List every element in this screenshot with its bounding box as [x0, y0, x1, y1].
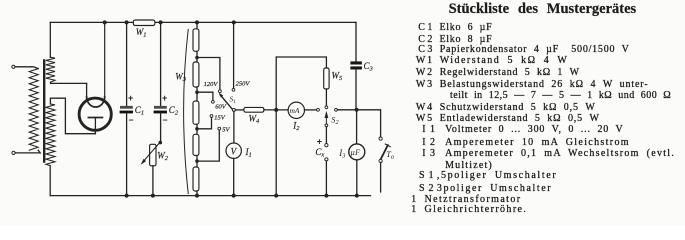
wire: W3 chain bottom to rail: [196, 191, 198, 196]
milliammeter I2: [288, 102, 304, 118]
transformer HV secondary winding: [46, 57, 55, 82]
rectifier tube V1 envelope: [79, 98, 111, 130]
switch Ta lever: [381, 145, 388, 159]
wire: node down to uF meter: [356, 110, 358, 144]
variable resistor W2 wiper arrow: [143, 142, 160, 162]
parts list line Netztransformator: [411, 195, 416, 205]
wire: W5 to S2 top contact: [325, 89, 327, 106]
switch S2 wiper base: [325, 124, 328, 127]
svg-text:Ta: Ta: [386, 150, 394, 160]
resistor W3 section 5: [193, 167, 199, 191]
svg-text:Cx: Cx: [315, 147, 324, 159]
switch S2 left contact: [317, 108, 320, 111]
node: tube output on rail: [103, 20, 107, 24]
resistor W3 section 2: [193, 62, 199, 87]
switch S1 contact 5V: [218, 127, 221, 130]
node: 250V junction on rail: [232, 20, 236, 24]
capacitor C2 top plate: [154, 106, 167, 109]
svg-text:+: +: [162, 93, 167, 103]
node: Cx on bottom rail: [324, 194, 328, 198]
switch S1 pivot: [232, 108, 235, 111]
capacitor C2 bottom plate: [154, 111, 167, 114]
node: W4 / shunt junction: [274, 108, 278, 112]
svg-text:W1: W1: [136, 27, 147, 39]
W3 group bracket: [184, 30, 189, 194]
wire: C3 to node: [355, 70, 357, 110]
switch S1 contact 15V: [210, 115, 213, 118]
transformer filament winding: [46, 104, 55, 166]
resistor W5: [324, 68, 329, 89]
switch S2 wiper arrow: [325, 116, 327, 124]
wire: S1 pivot down to voltmeter: [233, 111, 235, 143]
parts list line S2: [419, 184, 434, 194]
node: W3 tap 120V: [195, 56, 199, 60]
svg-text:–: –: [129, 115, 134, 125]
node: uF meter on bottom rail: [355, 194, 359, 198]
wire: lower terminal to primary: [15, 150, 40, 153]
wire: C1 to bottom rail: [126, 113, 128, 195]
svg-text:15V: 15V: [214, 115, 226, 122]
wire: upper terminal to primary: [15, 67, 38, 69]
svg-text:W4: W4: [249, 114, 261, 126]
wire: W3 sect4 to sect5: [196, 156, 198, 168]
wire: C2 down to W2 wiper: [160, 113, 162, 142]
capacitor C3 top plate: [350, 61, 362, 64]
wire: rail to C1: [126, 22, 128, 106]
switch S1 wiper: [220, 95, 232, 110]
voltmeter I1: [226, 143, 241, 158]
capacitor C1 bottom plate: [120, 111, 133, 114]
svg-text:W5: W5: [332, 71, 344, 83]
parts list line C3: [418, 45, 432, 55]
tube anode cup arc: [87, 97, 105, 107]
transformer primary winding: [29, 69, 38, 151]
switch S2 right contact: [335, 108, 338, 111]
wire: rail to 250V contact: [233, 22, 235, 88]
parts list line W5: [416, 114, 432, 124]
parts list line W3: [416, 80, 432, 90]
parts list line C1: [418, 23, 432, 33]
wire: filament bottom lead to bottom rail: [49, 166, 51, 196]
wire: S2 wiper down to Cx: [325, 127, 327, 144]
svg-text:C3: C3: [364, 61, 374, 73]
terminal Cx upper: [325, 144, 328, 147]
switch S1 contact 120V: [219, 90, 222, 93]
wire: uF meter to bottom rail: [356, 160, 358, 196]
svg-text:I2: I2: [292, 121, 300, 133]
svg-text:C1: C1: [135, 105, 144, 117]
wire: W3 sect3 to sect4: [196, 124, 198, 134]
resistor W1: [133, 20, 155, 26]
wire: Cx lower to bottom rail: [325, 161, 327, 196]
wire: HV bottom lead to tube anode: [51, 82, 87, 83]
parts list line W3 continuation: [450, 91, 671, 101]
node: W3 tap 5V: [195, 159, 199, 163]
node: W3 tap 60V: [195, 90, 199, 94]
svg-text:S1: S1: [229, 94, 236, 105]
svg-text:S2: S2: [331, 115, 339, 126]
node: W2 on bottom rail: [151, 194, 155, 198]
wire: shunt junction down to bottom rail: [275, 110, 277, 196]
parts list line C2: [418, 35, 432, 45]
variable resistor W2 body: [150, 144, 156, 166]
resistor W4: [244, 107, 264, 112]
wire: voltmeter to bottom rail: [233, 158, 235, 195]
svg-text:+: +: [128, 93, 133, 103]
wire: shunt branch up and over to W5: [276, 57, 326, 110]
wire: Ta down lead: [380, 163, 382, 193]
transformer core: [43, 61, 45, 162]
resistor W3 section 4: [193, 134, 199, 155]
node: voltmeter on bottom rail: [232, 194, 236, 198]
svg-text:I1: I1: [245, 147, 252, 159]
wire: bottom return rail: [50, 195, 370, 197]
resistor W3 section 1: [193, 29, 199, 52]
parts list line W2: [416, 68, 432, 78]
parts list line I1: [422, 125, 435, 135]
switch S1 contact 60V: [212, 100, 215, 103]
wire: W3 sect1 to sect2: [196, 51, 198, 62]
node: W3 on bottom rail: [195, 194, 199, 198]
wire: W4 to mA junction: [264, 109, 288, 111]
wire: tap to 60V contact: [197, 92, 213, 100]
tube cathode lead to rail: [104, 22, 106, 96]
parts list line I3: [422, 149, 435, 159]
parts list line S1: [419, 171, 434, 181]
node: W3 chain top on rail: [195, 20, 199, 24]
wire: HV top lead to rail: [49, 22, 51, 57]
svg-text:W2: W2: [157, 151, 169, 163]
parts list line W1: [416, 56, 432, 66]
parts list line I3 continuation: [445, 161, 493, 171]
svg-text:60V: 60V: [215, 104, 227, 111]
input terminal upper: [12, 65, 15, 68]
node: C2/W2 wiper joint: [159, 141, 163, 145]
wire: mA meter to S2 left contact: [305, 109, 317, 111]
wire: W2 to bottom rail: [152, 166, 154, 196]
tube filament centre lead down: [94, 118, 96, 134]
svg-text:5V: 5V: [222, 127, 230, 134]
svg-text:I3: I3: [338, 148, 346, 160]
wire: top B+ rail: [50, 21, 356, 23]
input terminal lower: [12, 151, 15, 154]
tube filament bar: [88, 117, 102, 119]
parts list line I2: [422, 138, 435, 148]
terminal Cx lower: [325, 158, 328, 161]
svg-text:mA: mA: [290, 106, 300, 115]
switch Ta top contact: [379, 137, 382, 140]
capacity meter I3: [349, 144, 365, 160]
svg-text:–: –: [163, 115, 168, 125]
node: C2 junction on top rail: [159, 20, 163, 24]
parts list line Gleichrichterroehre: [411, 205, 416, 215]
svg-text:µF: µF: [350, 148, 361, 157]
wire: rail to C2: [160, 22, 162, 106]
node: C3 / S2 / meters junction: [355, 108, 359, 112]
wire: rail to W3 section 1: [196, 22, 198, 28]
node: C1 junction on top rail: [125, 20, 129, 24]
switch S2 top contact: [325, 106, 328, 109]
wire: S2 right contact to C3 node: [337, 109, 356, 111]
wire: right drop from rail to C3: [355, 22, 357, 61]
switch Ta bottom contact: [379, 159, 382, 162]
wire: tap to 15V contact: [197, 118, 212, 129]
parts list title: [449, 2, 637, 17]
node: C1 on bottom rail: [125, 194, 129, 198]
wire: W3 sect2 to sect3: [196, 87, 198, 101]
wire: tap to 5V contact: [197, 130, 219, 161]
svg-text:120V: 120V: [204, 81, 219, 88]
node: shunt on bottom rail: [274, 194, 278, 198]
capacitor C3 bottom plate: [350, 66, 362, 69]
svg-text:C2: C2: [169, 105, 179, 117]
parts list line W4: [416, 103, 432, 113]
svg-text:250V: 250V: [236, 81, 251, 88]
wire: node to Ta switch: [357, 110, 381, 137]
node: W3 tap 15V: [195, 127, 199, 131]
tube anode left lead: [86, 83, 88, 96]
svg-text:+: +: [317, 137, 322, 147]
resistor W3 section 3: [193, 101, 199, 124]
capacitor C1 top plate: [120, 106, 133, 109]
switch S1 contact 250V: [232, 88, 235, 91]
wire: S1 pivot to W4: [235, 109, 244, 111]
wire: filament top lead around tube: [50, 98, 95, 134]
wire: tap to 120V contact: [197, 58, 220, 90]
